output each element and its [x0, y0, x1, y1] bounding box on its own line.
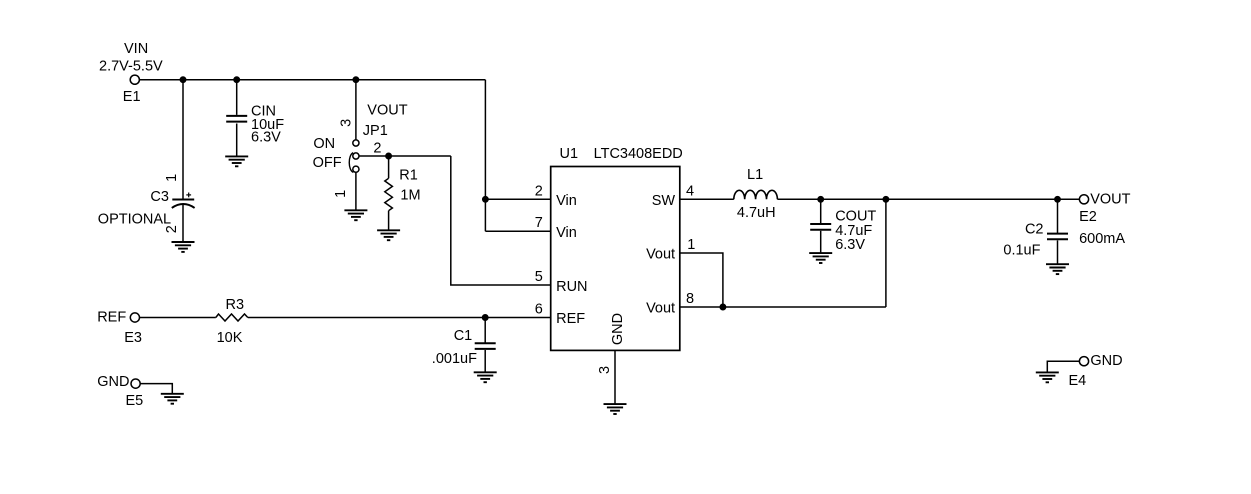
svg-text:U1: U1 — [560, 146, 579, 162]
svg-text:Vout: Vout — [646, 301, 675, 317]
ground (E5) — [161, 394, 184, 404]
label C3 — [98, 189, 171, 227]
svg-text:GND: GND — [610, 313, 626, 345]
svg-text:2.7V-5.5V: 2.7V-5.5V — [99, 59, 163, 75]
svg-text:C1: C1 — [454, 328, 473, 344]
svg-text:REF: REF — [97, 310, 126, 326]
svg-text:3: 3 — [597, 366, 613, 374]
ground (C3) — [172, 242, 195, 252]
wire JP1 pin1 lead — [355, 172, 357, 210]
svg-text:OFF: OFF — [313, 155, 342, 171]
terminal E1 — [130, 75, 139, 84]
svg-text:4.7uH: 4.7uH — [737, 205, 776, 221]
svg-text:OPTIONAL: OPTIONAL — [98, 212, 171, 228]
svg-text:0.1uF: 0.1uF — [1003, 243, 1040, 259]
ground (C2) — [1046, 264, 1069, 274]
ground (CIN) — [225, 156, 248, 166]
svg-text:REF: REF — [556, 311, 585, 327]
wire pin 3 GND lead — [614, 350, 616, 404]
svg-text:LTC3408EDD: LTC3408EDD — [594, 146, 683, 162]
terminal E2 — [1079, 195, 1088, 204]
label CIN value — [251, 104, 284, 146]
wire C2 bottom lead — [1057, 240, 1059, 264]
label C1 value — [432, 328, 477, 367]
svg-text:C2: C2 — [1025, 221, 1044, 237]
label E1 — [123, 89, 141, 105]
svg-text:E2: E2 — [1079, 209, 1097, 225]
ground (E4) — [1036, 372, 1059, 382]
ground (C1) — [474, 372, 497, 382]
label R3 value — [217, 297, 244, 346]
svg-text:7: 7 — [535, 215, 543, 231]
svg-text:Vin: Vin — [556, 193, 577, 209]
wire C2 top lead — [1057, 199, 1059, 233]
wire CIN bottom lead — [236, 124, 238, 157]
capacitor CIN plates — [226, 116, 247, 122]
label U1 — [560, 146, 683, 162]
svg-text:2: 2 — [164, 225, 180, 233]
resistor R1 — [385, 178, 393, 210]
svg-text:R1: R1 — [399, 167, 418, 183]
terminal E3 — [130, 313, 139, 322]
capacitor C3 (polarized) — [172, 193, 195, 208]
capacitor C1 plates — [475, 343, 496, 349]
wire rail drop to pin 8 net — [885, 199, 887, 307]
svg-text:JP1: JP1 — [363, 123, 388, 139]
ground (R1) — [377, 230, 400, 240]
label C2 value — [1003, 221, 1043, 258]
junction C1 tap — [483, 315, 488, 320]
svg-text:6.3V: 6.3V — [251, 130, 281, 146]
junction Vout sense tap — [883, 197, 888, 202]
svg-text:VIN: VIN — [124, 41, 148, 57]
capacitor COUT plates — [810, 224, 831, 230]
svg-text:8: 8 — [686, 291, 694, 307]
wire VIN rail E1 to corner — [139, 79, 485, 81]
ground (JP1) — [344, 210, 367, 220]
svg-text:RUN: RUN — [556, 279, 587, 295]
junction C2 tap — [1055, 197, 1060, 202]
svg-text:1: 1 — [333, 190, 349, 198]
junction JP1 tap — [353, 77, 358, 82]
inductor L1 — [734, 190, 778, 199]
junction pin1/pin8 join — [720, 304, 725, 309]
capacitor C2 plates — [1047, 234, 1068, 240]
label L1 value — [737, 167, 776, 221]
wire JP1 pin3 drop — [355, 80, 357, 140]
svg-text:6.3V: 6.3V — [835, 237, 865, 253]
svg-text:E5: E5 — [126, 393, 144, 409]
wire CIN top lead — [236, 80, 238, 115]
resistor R3 — [216, 314, 248, 321]
wire R3 to REF pin — [248, 317, 551, 319]
svg-text:E1: E1 — [123, 89, 141, 105]
label JP1 — [363, 102, 408, 139]
wire SW to L1 — [680, 198, 734, 200]
svg-text:GND: GND — [97, 374, 129, 390]
wire E5 to ground — [140, 384, 172, 394]
svg-text:Vout: Vout — [646, 247, 675, 263]
svg-text:GND: GND — [1090, 353, 1122, 369]
svg-text:3: 3 — [338, 119, 354, 127]
svg-text:4: 4 — [686, 184, 694, 200]
svg-text:E4: E4 — [1069, 373, 1087, 389]
svg-text:2: 2 — [373, 140, 381, 156]
svg-text:C3: C3 — [150, 189, 169, 205]
svg-text:SW: SW — [652, 193, 676, 209]
terminal E4 — [1079, 357, 1088, 366]
wire pin 8 wire — [680, 306, 886, 308]
wire E4 to ground — [1047, 361, 1079, 372]
svg-text:1M: 1M — [400, 188, 420, 204]
junction pin2 tap — [483, 197, 488, 202]
svg-text:R3: R3 — [226, 297, 245, 313]
wire C3 bottom lead — [182, 205, 184, 242]
svg-text:COUT: COUT — [835, 208, 876, 224]
svg-text:600mA: 600mA — [1079, 231, 1125, 247]
svg-text:Vin: Vin — [556, 225, 577, 241]
label E2 — [1079, 209, 1125, 247]
wire pin 2 stub — [485, 198, 550, 200]
svg-text:VOUT: VOUT — [1090, 191, 1130, 207]
wire R1 bottom lead — [388, 211, 390, 231]
ground (U1 pin3) — [604, 404, 627, 414]
junction C3 tap — [180, 77, 185, 82]
svg-text:L1: L1 — [747, 167, 763, 183]
wire COUT bottom lead — [820, 231, 822, 253]
junction COUT tap — [818, 197, 823, 202]
svg-text:VOUT: VOUT — [367, 102, 407, 118]
svg-text:.001uF: .001uF — [432, 351, 477, 367]
wire C3 top lead — [182, 80, 184, 200]
wire rail drop to Vin pins — [484, 80, 486, 232]
wire pin 1 route — [680, 253, 723, 307]
label R1 value — [399, 167, 420, 203]
junction CIN tap — [234, 77, 239, 82]
label VIN — [99, 41, 163, 75]
junction R1 tap — [386, 153, 391, 158]
svg-text:E3: E3 — [124, 330, 142, 346]
svg-text:1: 1 — [164, 174, 180, 182]
svg-text:2: 2 — [535, 183, 543, 199]
ground (COUT) — [809, 253, 832, 263]
terminal E5 — [131, 379, 140, 388]
wire COUT top lead — [820, 199, 822, 223]
wire C1 bottom lead — [484, 350, 486, 372]
svg-text:5: 5 — [535, 269, 543, 285]
svg-text:ON: ON — [313, 136, 335, 152]
wire pin 7 stub — [485, 230, 550, 232]
wire L1 to VOUT rail — [777, 198, 1079, 200]
svg-text:1: 1 — [687, 237, 695, 253]
op-amp / IC U1 LTC3408EDD — [551, 167, 680, 351]
svg-text:10K: 10K — [217, 330, 243, 346]
label COUT value — [835, 208, 876, 253]
wire R1 top lead — [388, 156, 390, 178]
wire C1 top lead — [484, 318, 486, 343]
wire JP1 pin2 to RUN corner — [359, 155, 451, 157]
wire E3 to R3 — [140, 317, 216, 319]
svg-text:6: 6 — [535, 302, 543, 318]
wire RUN route — [451, 156, 551, 285]
jumper JP1 — [349, 140, 359, 173]
